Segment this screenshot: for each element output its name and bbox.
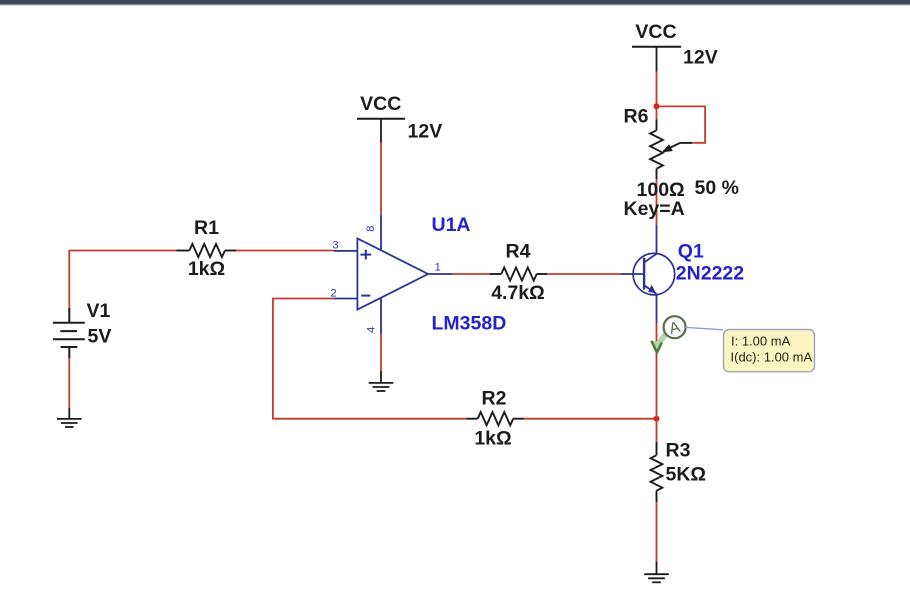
svg-text:Q1: Q1: [678, 240, 704, 262]
svg-text:R6: R6: [624, 105, 649, 127]
resistor R1: [176, 244, 236, 257]
svg-text:VCC: VCC: [635, 21, 676, 43]
svg-text:12V: 12V: [683, 47, 718, 69]
wire: junction to R3: [656, 419, 658, 442]
VCC rail symbol (R6): [632, 21, 718, 71]
current probe (ammeter): [664, 316, 686, 338]
junction node (R6 top): [654, 103, 660, 109]
probe tooltip box: [724, 330, 815, 372]
battery V1: [53, 308, 85, 358]
svg-text:2: 2: [330, 287, 336, 299]
ground (op-amp): [369, 371, 394, 391]
svg-text:8: 8: [365, 226, 377, 232]
svg-text:1kΩ: 1kΩ: [474, 427, 511, 449]
wire: R4 to Q1 base: [547, 273, 621, 275]
wire: V1 bottom to ground: [68, 358, 70, 407]
probe direction arrow: [658, 332, 668, 345]
wire: emitter to junction node: [656, 324, 658, 419]
VCC rail symbol (op-amp): [357, 93, 442, 142]
svg-text:VCC: VCC: [360, 93, 401, 115]
wire: op-amp output pin 1 (blue): [428, 273, 453, 275]
svg-text:4.7kΩ: 4.7kΩ: [491, 282, 545, 304]
wire: collector stub (blue): [656, 225, 658, 254]
svg-text:1: 1: [435, 262, 441, 274]
svg-text:I(dc): 1.00 mA: I(dc): 1.00 mA: [731, 350, 813, 365]
svg-text:R1: R1: [194, 217, 219, 239]
junction node (R2/R3/emitter): [654, 416, 660, 422]
resistor R2: [466, 412, 524, 425]
wire: R6 bottom to collector (red part): [656, 179, 658, 224]
wire: VCC to R6 top node: [656, 72, 658, 107]
potentiometer R6: [650, 120, 692, 180]
wire stub pin 8 (blue): [380, 215, 382, 251]
ground (V1): [57, 408, 82, 427]
wire: R1 right lead to op-amp pin 3: [236, 250, 334, 252]
wire: feedback pin 2 to R2: [273, 299, 466, 419]
svg-text:Key=A: Key=A: [624, 198, 685, 220]
svg-text:R3: R3: [666, 439, 691, 461]
wire: emitter stub (blue): [656, 294, 658, 324]
wire: base stub (blue): [621, 273, 644, 275]
wire: output to R4: [453, 273, 490, 275]
wire: pin 4 to ground: [380, 334, 382, 371]
svg-text:R2: R2: [482, 388, 507, 410]
wiper arrow head (R6): [662, 144, 673, 152]
svg-text:1kΩ: 1kΩ: [188, 258, 225, 280]
svg-text:5KΩ: 5KΩ: [666, 463, 707, 485]
svg-text:12V: 12V: [408, 120, 443, 142]
transistor Q1: [633, 253, 675, 295]
resistor R4: [490, 267, 548, 280]
svg-text:LM358D: LM358D: [432, 313, 507, 335]
wire: R2 to emitter node: [524, 418, 657, 420]
svg-text:2N2222: 2N2222: [676, 263, 744, 285]
svg-text:50 %: 50 %: [695, 177, 739, 199]
window top bar: [0, 0, 910, 6]
svg-text:4: 4: [366, 327, 378, 333]
svg-text:I: 1.00 mA: I: 1.00 mA: [731, 333, 791, 348]
svg-text:5V: 5V: [88, 325, 112, 347]
wire: VCC to op-amp pin 8: [380, 143, 382, 215]
svg-text:R4: R4: [506, 241, 531, 263]
wire: R3 to ground: [656, 502, 658, 562]
wire: R6 top node down: [656, 106, 658, 119]
ground (R3): [644, 562, 669, 583]
op-amp U1A: [334, 238, 428, 309]
probe leader line: [685, 327, 723, 329]
svg-text:3: 3: [332, 239, 338, 251]
wire: V1 top to R1 (node from source): [69, 251, 176, 309]
emitter arrow (Q1): [648, 285, 656, 294]
svg-text:V1: V1: [87, 300, 111, 322]
resistor R3: [651, 442, 663, 502]
wire: R6 wiper loop: [657, 106, 706, 142]
wire stub pin 4 (blue): [380, 298, 382, 334]
svg-text:U1A: U1A: [432, 214, 471, 236]
